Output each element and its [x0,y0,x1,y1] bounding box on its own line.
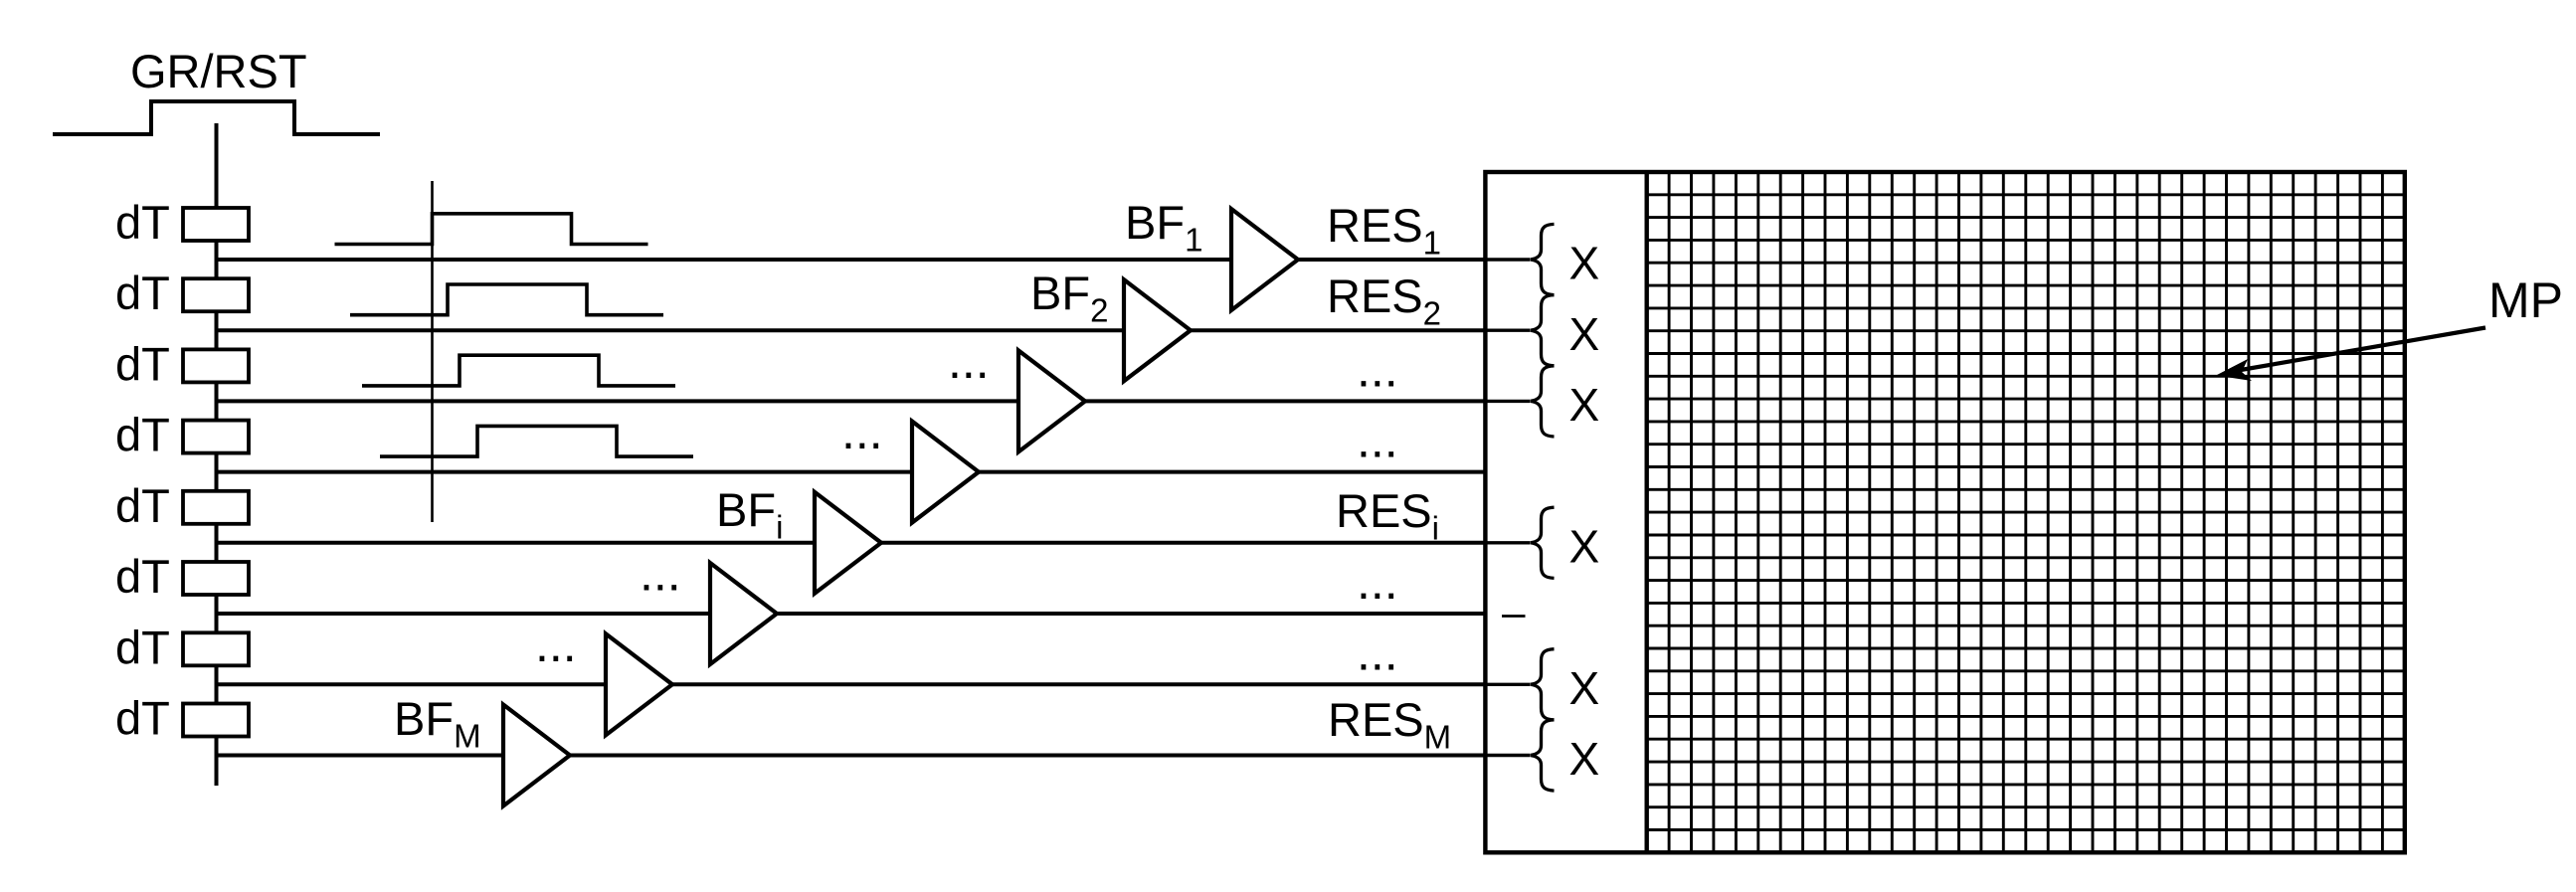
svg-text:...: ... [1357,341,1398,397]
svg-text:...: ... [1357,554,1398,610]
svg-text:dT: dT [115,409,170,461]
svg-text:GR/RST: GR/RST [130,45,307,97]
svg-text:X: X [1569,379,1600,431]
svg-text:dT: dT [115,550,170,603]
svg-text:dT: dT [115,621,170,673]
svg-text:...: ... [948,333,990,389]
svg-text:X: X [1569,238,1600,289]
svg-text:dT: dT [115,196,170,249]
svg-text:...: ... [841,404,883,459]
svg-text:X: X [1569,308,1600,360]
svg-text:...: ... [640,546,681,602]
svg-text:X: X [1569,733,1600,785]
svg-text:dT: dT [115,267,170,319]
svg-text:MP: MP [2488,272,2563,328]
svg-text:X: X [1569,520,1600,572]
svg-text:...: ... [535,617,577,672]
svg-text:...: ... [1357,624,1398,680]
svg-text:dT: dT [115,479,170,532]
svg-text:X: X [1569,662,1600,714]
svg-text:dT: dT [115,692,170,745]
svg-text:dT: dT [115,337,170,390]
svg-text:...: ... [1357,413,1398,468]
